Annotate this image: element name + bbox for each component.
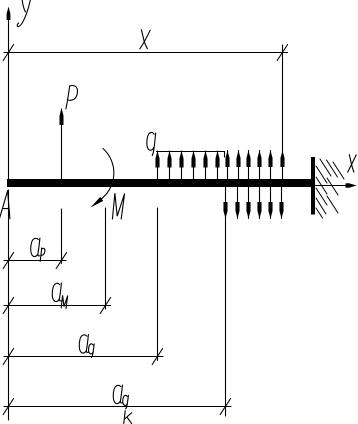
dimension line a_q [4, 356, 163, 358]
label a_qk : q [123, 395, 129, 409]
extension line under M (x=105) [105, 208, 107, 309]
label A [0, 191, 10, 220]
label x [140, 30, 150, 49]
y axis arrowhead [7, 7, 11, 20]
label a_M : M [61, 295, 67, 308]
up arrow 3 [179, 151, 183, 180]
tick a_q left [3, 349, 13, 365]
label a_qk : a [113, 385, 122, 403]
label y [17, 0, 30, 27]
label q [147, 132, 156, 155]
x axis arrowhead [346, 183, 357, 188]
label a_q : a [79, 335, 88, 353]
dimension line x [4, 52, 288, 54]
extension line under q start (x=157) [157, 208, 159, 361]
force P line [61, 109, 63, 180]
down arrow 1 [223, 187, 227, 219]
up arrow 12 [280, 151, 284, 180]
up arrow 6 [215, 151, 219, 180]
tick a_M right [100, 298, 110, 314]
label P [66, 86, 78, 109]
extension line from x dim down to load (x=283) [282, 45, 284, 151]
dimension line a_p [4, 260, 66, 262]
tick a_p right [56, 253, 66, 269]
tick a_p left [3, 253, 13, 269]
up arrow 2 [167, 151, 171, 180]
tick at right of x dim [277, 45, 287, 61]
extension line at load end (x=225) [225, 219, 227, 417]
up arrow 1 [155, 151, 159, 180]
up arrow 5 [203, 151, 207, 180]
tick a_qk right [220, 399, 230, 415]
tick a_M left [3, 298, 13, 314]
tick a_qk left [3, 399, 13, 415]
up arrow 10 [257, 151, 261, 180]
up arrow 9 [246, 151, 250, 180]
beam [7, 179, 312, 187]
up arrow 8 [236, 151, 240, 180]
label a_M : a [52, 283, 61, 301]
up arrow 11 [268, 151, 272, 180]
force P arrowhead [60, 108, 64, 125]
label a_p : p [40, 248, 45, 261]
moment M arrowhead [91, 197, 104, 208]
down arrow 2 [235, 187, 239, 219]
up arrow 7 [225, 151, 229, 180]
dimension line a_M [4, 305, 111, 307]
label a_qk : k [124, 411, 132, 424]
wall hatching [316, 159, 344, 218]
extension line under P (x=61) [61, 209, 63, 264]
down arrow 4 [257, 187, 261, 219]
y axis [8, 8, 10, 180]
moment M arc [100, 149, 114, 201]
distributed load q top line [157, 152, 225, 158]
label a_p : a [31, 238, 40, 256]
x axis [316, 185, 349, 187]
down arrow 5 [268, 187, 272, 219]
tick at origin of x dim [3, 45, 13, 61]
tick a_q right [152, 349, 162, 365]
label M [112, 193, 124, 219]
wall bar [311, 157, 315, 215]
up arrow 4 [191, 151, 195, 180]
dimension line a_qk [4, 406, 231, 408]
extension line at A (x=8) [8, 190, 10, 420]
label X [348, 155, 357, 173]
down arrow 6 [279, 187, 283, 219]
label a_q : q [89, 344, 95, 358]
down arrow 3 [246, 187, 250, 219]
